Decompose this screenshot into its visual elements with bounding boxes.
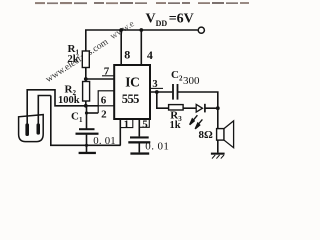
LED D1 triangle [196, 104, 202, 112]
junction dot rail-4 [139, 28, 143, 32]
wire LED to node D [205, 107, 218, 109]
wire R3 to LED [183, 107, 196, 109]
speaker B1 magnet box [217, 129, 224, 141]
watermark www.elecfans.com run 2 [109, 19, 137, 42]
junction node A dot [84, 77, 88, 81]
svg-text:0. 01: 0. 01 [145, 141, 169, 153]
svg-text:0. 01: 0. 01 [93, 135, 116, 147]
wire probe left electrode up-over [27, 90, 86, 124]
wire speaker down stub [217, 140, 219, 153]
wire pin8 drop [120, 30, 122, 65]
capacitor C1 plates [79, 128, 95, 130]
wire pin3 to C2 [150, 91, 172, 93]
svg-text:IC: IC [125, 75, 139, 90]
junction pin2/C1 dot [85, 111, 88, 114]
wire node A to pin7 [86, 78, 114, 80]
svg-text:2k: 2k [68, 54, 79, 65]
probe electrode left [25, 123, 29, 136]
wire pin4 drop [140, 30, 142, 65]
svg-text:4: 4 [147, 48, 153, 62]
svg-text:555: 555 [122, 92, 139, 106]
LED D1 cathode bar [204, 104, 206, 113]
svg-text:2: 2 [101, 108, 107, 120]
capacitor C3 plates (pin5) [130, 136, 149, 138]
wire C2 right to corner [178, 92, 218, 129]
probe cup [19, 115, 44, 142]
svg-text:8Ω: 8Ω [199, 129, 214, 141]
wire R2 bottom to node B [85, 101, 87, 106]
ground 1 bar [79, 152, 96, 154]
wire pin5 down to capacitor [138, 119, 140, 136]
capacitor C2 plates [172, 84, 174, 100]
svg-text:100k: 100k [58, 95, 80, 106]
cropped text fragments at top edge [35, 2, 249, 4]
wire node C down and to R3 [157, 92, 169, 108]
svg-text:1k: 1k [170, 120, 181, 131]
junction node B dot [84, 104, 88, 108]
junction dot rail-8 [119, 28, 123, 32]
resistor R3 body [169, 105, 184, 110]
VDD terminal circle [198, 27, 204, 33]
wire probe right electrode up-over [38, 96, 51, 124]
svg-text:1: 1 [124, 118, 130, 130]
resistor R1 body [82, 51, 89, 68]
LED light arrows [190, 115, 203, 129]
ground 3 bar with hatches [211, 153, 225, 155]
probe electrode right [37, 123, 41, 134]
pin 6 number box [98, 91, 114, 106]
ground 2 bar [130, 152, 149, 154]
wire pin1 down to ground rail [119, 119, 121, 145]
wire pin2 stub [87, 112, 99, 114]
wire ground1 stub [86, 145, 88, 152]
power rail wire VDD [86, 30, 198, 51]
svg-text:8: 8 [124, 48, 130, 62]
wire node B to pin6 [86, 105, 98, 107]
watermark www.elecfans.com run 1 [44, 36, 111, 85]
wire node B down to pin2 level [86, 106, 88, 129]
IC U1 555 box [114, 65, 150, 119]
junction node D dot [216, 106, 220, 110]
ground rail bottom [51, 96, 121, 146]
resistor R2 body [83, 82, 90, 102]
wire C1 ground stub [86, 135, 88, 146]
wire C3 ground stub [138, 143, 140, 152]
pin 2 number and box edge [97, 106, 99, 113]
svg-text:VDD=6V: VDD=6V [146, 12, 194, 28]
svg-text:300: 300 [183, 75, 200, 87]
junction node C dot [155, 90, 159, 94]
svg-text:6: 6 [101, 94, 107, 106]
speaker B1 cone [224, 121, 234, 148]
junction C1-rail dot [85, 144, 88, 147]
svg-text:5: 5 [142, 118, 148, 130]
wire R1 bottom to node A [85, 68, 87, 82]
